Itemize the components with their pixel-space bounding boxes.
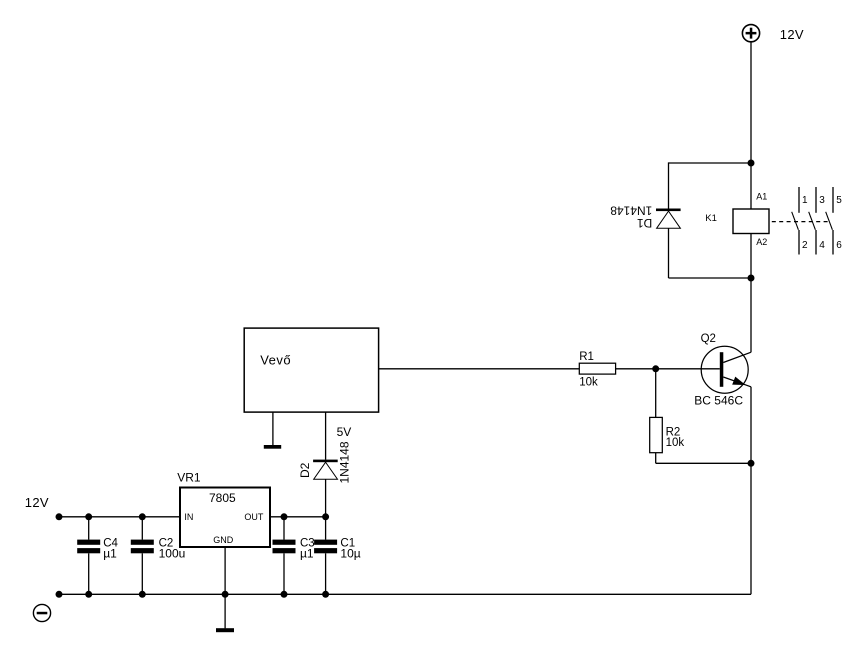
wire: bottom ground rail <box>59 593 751 595</box>
value 100u of C2 <box>159 546 186 560</box>
capacitor C4 <box>77 517 100 595</box>
receiver box Vevö <box>244 328 378 412</box>
pin label 4 <box>819 240 825 251</box>
pin label GND <box>213 535 234 545</box>
capacitor C2 <box>131 517 154 595</box>
wire: regulator OUT to 5V node <box>270 516 326 518</box>
node: junction dot C3 top <box>281 513 288 520</box>
node: junction dot C1/D2 <box>322 513 329 520</box>
node: junction dot at emitter/R2 <box>748 460 755 467</box>
node: junction dot C3 bottom <box>281 591 288 598</box>
pin label 2 <box>802 240 808 251</box>
wire: input rail to regulator IN <box>59 516 180 518</box>
svg-text:1N4148: 1N4148 <box>338 441 352 483</box>
svg-text:A1: A1 <box>756 191 767 201</box>
label C4 <box>103 537 118 549</box>
svg-text:7805: 7805 <box>209 491 236 505</box>
relay coil K1 <box>733 209 769 234</box>
svg-text:D2: D2 <box>298 462 312 478</box>
wire: junction down to transistor collector <box>750 278 752 352</box>
node: junction dot at relay/diode top <box>748 160 755 167</box>
wire: relay coil bottom to junction <box>750 234 752 279</box>
svg-text:2: 2 <box>802 240 808 251</box>
svg-text:BC 546C: BC 546C <box>694 393 743 407</box>
value 10µ of C1 <box>340 546 360 560</box>
label Q2 <box>701 333 716 345</box>
wire: Vevö ground stub <box>272 412 274 445</box>
pin label 6 <box>836 240 842 251</box>
svg-text:Vevő: Vevő <box>260 353 291 368</box>
ground (regulator) <box>216 628 234 632</box>
svg-text:3: 3 <box>819 195 825 206</box>
value µ1 of C3 <box>300 546 314 560</box>
label BC 546C <box>694 393 743 407</box>
wire: D1 branch vertical lower <box>668 228 670 278</box>
pin label 1 <box>802 195 808 206</box>
ground (Vevö) <box>264 445 281 449</box>
svg-text:10µ: 10µ <box>340 546 360 560</box>
pin label A1 <box>756 191 767 201</box>
node: input rail end dot <box>56 513 63 520</box>
svg-text:µ1: µ1 <box>300 546 314 560</box>
svg-text:100u: 100u <box>159 546 186 560</box>
svg-text:GND: GND <box>213 535 234 545</box>
label D1 (rotated 180) <box>637 216 653 230</box>
node: junction dot C4 top <box>85 513 92 520</box>
pin label OUT <box>244 512 264 522</box>
label D2 (rotated 90ccw) <box>298 462 312 478</box>
value 10k of R2 <box>666 437 685 449</box>
svg-text:K1: K1 <box>705 213 717 224</box>
svg-text:5V: 5V <box>337 425 352 439</box>
dashed actuation link relay to contacts <box>772 221 830 223</box>
regulator VR1 7805 <box>180 488 270 548</box>
svg-text:Q2: Q2 <box>701 333 716 345</box>
wire: R2 bottom to emitter junction <box>656 462 751 464</box>
wire: Vevö 5V pin down to D2 <box>325 412 327 460</box>
pin label 5 <box>836 195 842 206</box>
relay contact 1-2 <box>792 187 799 255</box>
wire: junction down through R2 to bottom <box>655 369 657 464</box>
wire: emitter down to junction <box>750 387 752 464</box>
label C3 <box>300 537 315 549</box>
value 10k of R1 <box>579 376 598 388</box>
label 1N4148 of D1 (rotated 180) <box>610 204 652 218</box>
wire: D2 bottom to 5V rail <box>325 479 327 517</box>
svg-text:R1: R1 <box>579 351 594 363</box>
label VR1 <box>177 470 201 484</box>
pin label 3 <box>819 195 825 206</box>
value µ1 of C4 <box>103 546 117 560</box>
label R1 <box>579 351 594 363</box>
svg-text:6: 6 <box>836 240 842 251</box>
diode D1 1N4148 <box>656 209 681 229</box>
diode D2 1N4148 <box>313 460 338 480</box>
label C1 <box>340 537 355 549</box>
relay contact 5-6 <box>826 187 833 255</box>
svg-text:1: 1 <box>802 195 808 206</box>
minus supply terminal <box>33 604 50 621</box>
node: junction dot C2 top <box>139 513 146 520</box>
node: junction dot base/R2 <box>652 365 659 372</box>
wire: junction down to bottom rail <box>750 463 752 594</box>
capacitor C3 <box>273 517 296 595</box>
node: bottom rail end dot <box>56 591 63 598</box>
svg-text:VR1: VR1 <box>177 470 201 484</box>
svg-text:IN: IN <box>184 512 193 522</box>
label R2 <box>666 427 681 439</box>
wire: Vevö output to transistor base <box>379 368 720 370</box>
svg-text:A2: A2 <box>756 237 767 247</box>
pin label IN <box>184 512 193 522</box>
wire: D1 branch vertical upper <box>668 162 670 208</box>
+12V supply terminal <box>742 25 759 42</box>
label 12V (top right) <box>780 27 804 42</box>
svg-text:1N4148: 1N4148 <box>610 204 652 218</box>
label 12V (left) <box>25 495 49 510</box>
node: junction dot GND on bottom rail <box>222 591 229 598</box>
label K1 <box>705 213 717 224</box>
node: junction dot C4 bottom <box>85 591 92 598</box>
svg-text:5: 5 <box>836 195 842 206</box>
svg-text:12V: 12V <box>780 27 804 42</box>
label 5V <box>337 425 352 439</box>
svg-text:4: 4 <box>819 240 825 251</box>
resistor R2 <box>650 417 663 452</box>
wire: +12V terminal down to relay coil top <box>750 42 752 209</box>
svg-text:µ1: µ1 <box>103 546 117 560</box>
svg-text:OUT: OUT <box>244 512 264 522</box>
resistor R1 <box>579 363 615 374</box>
node: junction dot C2 bottom <box>139 591 146 598</box>
capacitor C1 <box>314 517 337 595</box>
label 7805 <box>209 491 236 505</box>
label Vevö <box>260 353 291 368</box>
wire: top of D1 branch <box>669 162 752 164</box>
svg-text:10k: 10k <box>579 376 598 388</box>
transistor Q2 BC546C <box>701 346 751 393</box>
relay contact 3-4 <box>809 187 816 255</box>
svg-text:D1: D1 <box>637 216 653 230</box>
svg-text:10k: 10k <box>666 437 685 449</box>
wire: regulator GND pin down <box>224 547 226 628</box>
svg-text:12V: 12V <box>25 495 49 510</box>
node: junction dot C1 bottom <box>322 591 329 598</box>
label 1N4148 of D2 (rotated 90ccw) <box>338 441 352 483</box>
wire: bottom of D1 branch <box>669 277 752 279</box>
label C2 <box>159 537 174 549</box>
pin label A2 <box>756 237 767 247</box>
node: junction dot below relay <box>748 275 755 282</box>
